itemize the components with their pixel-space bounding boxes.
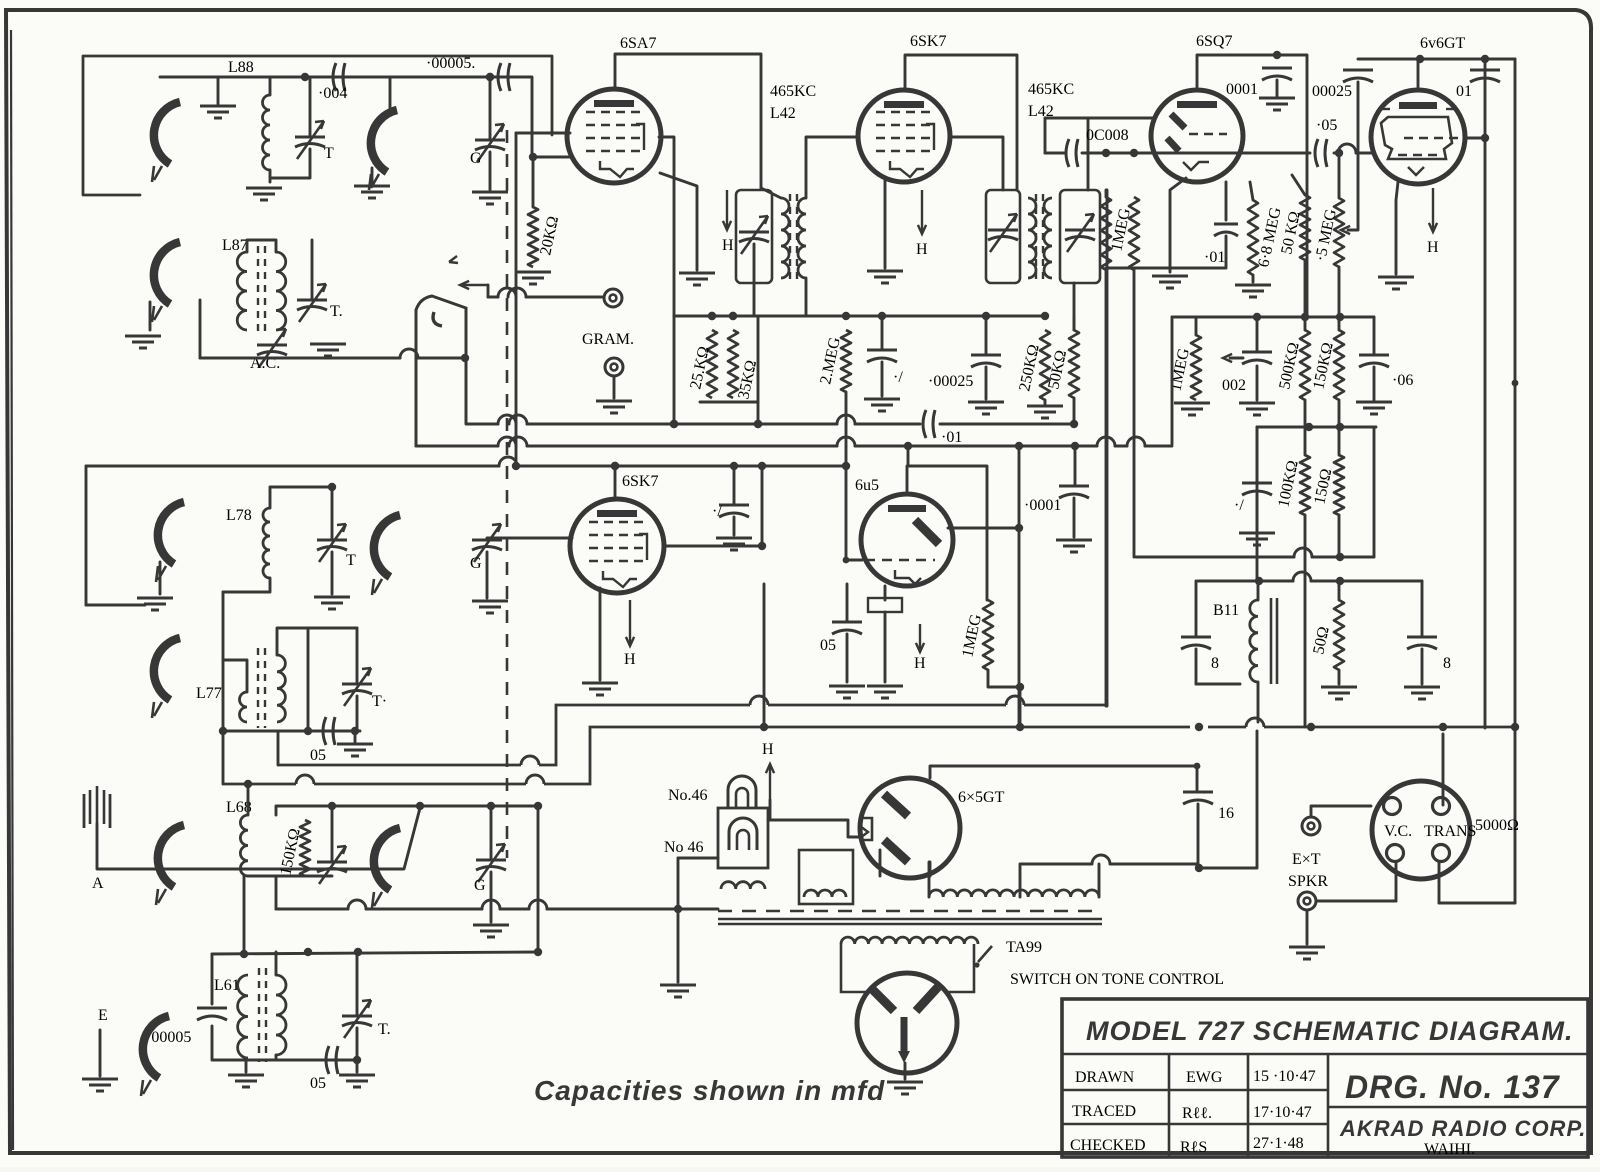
label tube 6SA7 [620,35,656,52]
wire L68 top rail [276,806,538,815]
wire avc drop b [1133,270,1136,557]
junction target bus [1015,524,1023,532]
label L68 [226,799,252,816]
wire screen bottom rail [700,401,758,404]
tube 6SK7 RF [570,499,664,593]
wire IFT1 pri top [761,188,781,198]
wire bus B plus top [86,457,850,470]
core L77 [258,648,265,728]
capacitor .00025 [1343,70,1373,82]
wire 6U5 cath [884,586,887,600]
label 465KC b [1028,81,1074,98]
capacitor .004 [333,63,345,91]
wire L87 top [247,240,276,252]
wire IFT2 sec lead [1087,118,1090,190]
wire B11 bottom [1257,682,1260,722]
coil IFT1 primary [781,198,789,278]
svg-text:H: H [624,651,636,668]
title corp [1339,1116,1586,1141]
svg-text:T.: T. [378,1021,391,1038]
wire 250K low [1044,400,1047,404]
ground 6SA7 cathode [679,273,715,285]
capacitor 002 [1242,352,1272,364]
wire coil L88 top [269,77,272,95]
label L42 a [770,105,796,122]
wire 6V6 top pin [1417,59,1420,90]
label 5000 [1475,817,1519,834]
svg-text:T: T [346,552,356,569]
heater arrow 6V6 [1429,188,1437,232]
svg-text:H: H [722,237,734,254]
junction bus B 1311 [1307,723,1315,731]
svg-text:·00005.: ·00005. [426,55,475,72]
wire .05 eye stem [846,634,849,682]
resistor 1MEG grid [1191,335,1201,400]
svg-text:5000Ω: 5000Ω [1475,817,1519,834]
capacitor 8 a [1181,637,1211,649]
ground 6SQ7 cathode [1152,276,1188,288]
label 05 ant [310,1075,326,1092]
svg-text:E: E [98,1007,108,1024]
wire antenna lead [97,808,420,869]
label 50K sq7 [1278,210,1304,256]
label switch on tone control [1010,971,1224,988]
svg-text:DRG. No. 137: DRG. No. 137 [1345,1069,1561,1105]
wire L61 sec bot [275,1055,278,1060]
junction lamp gnd [674,905,682,913]
resistor .5MEG [1334,198,1344,267]
resistor volume 500K [1129,197,1139,270]
resistor 6.8MEG [1248,200,1258,275]
wire .1 top [1256,427,1259,483]
svg-text:2.MEG: 2.MEG [817,335,844,385]
label 150K [1310,341,1337,391]
ground ext spkr [1289,947,1325,959]
wire 6x5 plate box [930,766,1197,790]
wire sec2 left edge [85,466,88,605]
svg-text:·00025: ·00025 [928,373,973,390]
switch wafer S3a [156,825,184,905]
wire B11 top [1257,581,1260,600]
heater arrow 6U5 [916,624,924,652]
wire 002 gnd lead [1256,317,1259,350]
label 500K [1276,341,1303,391]
wire switch S1b to ground [371,168,374,184]
svg-text:6v6GT: 6v6GT [1420,35,1466,52]
tube 6U5 base [868,598,902,612]
ground S2a [137,598,173,610]
wire .00025 stem [1348,82,1358,230]
label 1MEG avc [1108,206,1134,253]
svg-text:L77: L77 [196,685,222,702]
capacitor diode .01 [1214,224,1238,236]
label H 6SK7 [916,241,928,258]
junction L61 a [240,950,248,958]
trimmer IFT1 [739,216,769,254]
wire L78 bottom [223,578,270,592]
wire switch left drop [415,445,418,448]
label tube 6SK7 [910,33,946,50]
wire bus B step [224,718,1515,784]
junction L78 top [328,483,336,491]
wire gram term2 stem [613,377,616,398]
wire .5meg bottom [1338,267,1341,330]
junction eye bus [1016,683,1024,691]
ground 250K [1027,406,1063,418]
junction L61 b [304,948,312,956]
wire eye bus drop [1019,687,1022,727]
svg-text:AKRAD RADIO CORP.: AKRAD RADIO CORP. [1339,1116,1586,1141]
wire 6U5 gnd stem [884,612,887,682]
wire .1s top [733,466,736,505]
wire rail y316 [674,312,1049,320]
junction 35K top [729,312,737,320]
label tube 6U5 [855,477,879,494]
wire trimmer T2 [311,240,314,300]
junction L61 c [354,948,362,956]
wire L77 cap wire [223,730,360,733]
wire T L68 stem [331,806,334,862]
capacitor .00005 ant [197,1008,227,1020]
svg-text:·/: ·/ [893,369,903,386]
svg-text:TA99: TA99 [1006,939,1042,956]
plug mains [857,973,957,1073]
capacitor .00025 agc [971,355,1001,367]
junction 20K tap [529,153,537,161]
wire grid1 band switch [515,133,518,466]
resistor 100K [1300,455,1310,515]
label .00025 [1312,83,1352,100]
svg-text:L88: L88 [228,59,254,76]
wire 6V6 top rail [1358,58,1515,61]
wire IFT1 sec lead [806,137,858,198]
title checked date [1253,1135,1304,1152]
wire 50ohm top [1338,581,1341,600]
wire 6.8meg stub [1250,182,1253,200]
ground .06 [1356,402,1392,414]
ground G1 [472,192,508,204]
junction 6SK7b plate [758,542,766,550]
wire L61 bottom rail [246,1059,357,1062]
label .1 af [1234,497,1244,514]
coil IFT1 secondary [798,198,806,278]
wire grid bus y77 [160,73,530,81]
wire target drop [1018,446,1021,727]
ground switch S1b [354,186,390,198]
junction bus B 1020 [1016,723,1024,731]
svg-text:05: 05 [310,747,326,764]
wire vc to ext [1318,900,1396,903]
label .05 coupling [1316,117,1337,134]
wire 6SK7 top cap [905,55,1017,190]
capacitor .05 ant [326,1046,338,1074]
junction 6x5 box [1194,763,1201,770]
wire cap8b stem [1421,581,1424,635]
wire 1meg eye top [986,527,989,600]
ground 50ohm [1321,687,1357,699]
label E [98,1007,108,1024]
terminal gram pickup 1 [604,289,622,307]
trimmer T L77 [342,668,372,706]
svg-text:·06: ·06 [1392,372,1413,389]
ground .00025 [968,402,1004,414]
wire L68 coil top [247,784,250,815]
label TA99 [1006,939,1042,956]
label 1MEG grid [1167,346,1193,393]
switch tone [974,946,992,968]
wire HT left lead [928,862,931,897]
junction 2meg dot [843,557,850,564]
junction grid cap [486,73,494,81]
wire rail drop 1374 [1373,427,1376,557]
title drg no [1345,1069,1561,1105]
core B11 [1271,598,1277,684]
ground 20K [515,272,551,284]
trimmer capacitor T osc2 [297,284,327,322]
svg-text:465KC: 465KC [770,83,816,100]
label T L77 [372,693,387,710]
wire vc pin lead [1395,862,1398,901]
resistor 150K [1334,330,1344,400]
svg-text:L42: L42 [770,105,796,122]
svg-text:MODEL 727 SCHEMATIC DIAGRAM: MODEL 727 SCHEMATIC DIAGRAM. [1086,1016,1574,1046]
label tube 6SQ7 [1196,33,1232,50]
wire L68 to rail909 [275,876,278,909]
label .00005 ant [146,1029,191,1046]
wire T L77 low [356,696,359,731]
svg-text:465KC: 465KC [1028,81,1074,98]
junction L88 top [301,73,309,81]
label tube 6x5GT [958,789,1005,806]
label .01 diode [1204,249,1225,266]
wire avc drop a [1105,270,1108,706]
junction L77 a [219,727,227,735]
svg-text:TRACED: TRACED [1072,1103,1136,1120]
wire 100K bottom [1304,515,1307,727]
label 250K [1016,343,1043,393]
wire diode bottom lead [1073,283,1076,330]
capacitor .05 eye [832,622,862,634]
wire trimmer T top [309,77,312,137]
label .1 screen [712,503,722,520]
ground coil L88 [246,188,282,200]
wire L61 rail [212,952,538,954]
wire B+ line 1485 [1484,59,1487,728]
title drawn [1075,1069,1135,1086]
wire 6SK7 plate [949,137,1003,190]
core IF L87 [258,246,265,334]
label G1 [470,150,482,167]
resistor 35K [728,330,738,398]
label 1MEG eye [959,612,985,659]
ground heater [660,985,696,997]
svg-text:H: H [762,741,774,758]
switch wafer S2a [156,502,184,582]
terminal ext spkr 1 [1302,817,1320,835]
svg-text:150KΩ: 150KΩ [1310,341,1337,391]
wire S1c to ground [149,302,152,330]
svg-text:L61: L61 [214,977,240,994]
wire L68 drop [537,806,540,952]
coil L77 primary [240,692,248,722]
wire dashed AVC line [506,130,509,858]
capacitor .01 plate [1470,70,1500,82]
svg-text:DRAWN: DRAWN [1075,1069,1135,1086]
wire T L77 stem [356,628,359,684]
svg-text:E×T: E×T [1292,851,1321,868]
switch wafer S1b [369,110,397,190]
svg-text:EWG: EWG [1186,1069,1223,1086]
transformer core dashed [718,910,1102,913]
resistor 2MEG [841,330,851,392]
svg-text:27·1·48: 27·1·48 [1253,1135,1304,1152]
wire bus AVC upper [466,415,1078,428]
wire lamp left [678,857,718,860]
switch wafer S3b [372,828,400,908]
wire 6x5 heater b [929,862,932,876]
svg-text:50Ω: 50Ω [1310,625,1332,656]
svg-text:V.C.: V.C. [1384,823,1412,840]
tube 6U5 eye [861,494,953,586]
label H 6U5 [914,655,926,672]
svg-text:6SK7: 6SK7 [910,33,946,50]
trimmer capacitor T osc [295,121,325,159]
wire 6SK7 cathode [884,178,887,268]
label EXT [1292,851,1321,868]
ground L61 [228,1075,264,1087]
title waihi [1424,1141,1475,1158]
wire 500K to 100K [1304,400,1307,455]
label 16 [1218,805,1234,822]
label A.C. [250,355,280,372]
svg-text:0C008: 0C008 [1086,127,1129,144]
label tube 6V6GT [1420,35,1466,52]
junction 6SK7b top [611,462,619,470]
svg-text:No 46: No 46 [664,839,704,856]
wire RF section 1 enclosure [83,56,552,195]
svg-text:500KΩ: 500KΩ [1276,341,1303,391]
title block frame [1062,999,1588,1157]
ground switch S1a [200,106,236,118]
wire G3 low [490,872,493,922]
wire gram arrow stem [487,285,490,297]
wire 6SK7b plate [663,545,762,548]
tube 6V6GT output [1371,90,1465,184]
transformer core lines [718,919,1102,924]
junction screen bus [1481,134,1489,142]
resistor 500K [1300,330,1310,400]
svg-text:G: G [470,150,482,167]
label T [324,145,334,162]
wire 50K det low [1073,398,1076,424]
label 150K l68 [277,827,304,877]
wire lamp to gx [768,820,860,837]
wire G2 low [486,552,489,598]
junction .5meg grid b [1335,149,1343,157]
resistor 250K [1040,330,1050,400]
junction L68 coil top [244,780,252,788]
wire 6.8meg gnd lead [1252,275,1255,282]
label 8 b [1443,655,1451,672]
title drawn date [1253,1068,1316,1085]
wire L61 left box b [212,1026,246,1060]
ground .1 agc [864,399,900,411]
wire L78 top [270,487,332,508]
trimmer T L68 [317,846,347,884]
resistor 20K [528,207,538,267]
svg-text:·05: ·05 [1316,117,1337,134]
wire G1 top [489,77,492,140]
coil L87 secondary [276,252,286,330]
label TRANS [1424,823,1476,840]
trimmer IFT2 sec [1065,214,1095,252]
wire 150K joint [1338,400,1341,455]
ground 0001 [1259,98,1295,110]
svg-text:T·: T· [372,693,387,710]
resistor 50K det [1069,330,1079,398]
winding TA99 [841,937,978,944]
wire HT centre tap [1020,864,1092,897]
wire trans pin down [1438,862,1441,903]
junction 6V6 top [1416,55,1424,63]
wire grid lead b [514,77,572,157]
wire 6SQ7 top cap [1197,55,1307,317]
capacitor 00008 [1066,139,1078,167]
wire heater rail 909 [276,900,718,909]
capacitor .05 L77 [323,717,335,745]
svg-text:No.46: No.46 [668,787,708,804]
wire T L61 low [356,1028,359,1060]
ground mains plug [887,1082,923,1094]
svg-text:20KΩ: 20KΩ [537,215,562,257]
wire 20K top [532,157,535,207]
junction bus B spk [1439,723,1447,731]
ground 6.8MEG [1235,285,1271,297]
label H 6SA7 [722,237,734,254]
wire 1meg top [1195,317,1198,335]
junction bus B cap16 [1195,723,1203,731]
label SPKR [1288,873,1328,890]
svg-text:6SQ7: 6SQ7 [1196,33,1232,50]
wire 6U5 loop rect [908,446,987,527]
ground 6SK7 cathode [867,271,903,283]
coil L61 secondary [276,975,286,1055]
wire cap8b low [1421,649,1424,684]
wire plate rail y427 [1257,423,1376,431]
wire S1b stem [389,77,392,108]
svg-text:GRAM.: GRAM. [582,331,634,348]
wire bus444 to 1meg box [1171,317,1174,444]
label .5MEG [1312,207,1340,263]
trimmer capacitor G1 [475,124,505,162]
svg-text:6u5: 6u5 [855,477,879,494]
label 100K [1275,459,1302,509]
wire gram terminal feed [488,288,602,297]
ground gram [596,401,632,413]
svg-text:·/: ·/ [712,503,722,520]
label 150ohm [1311,467,1335,506]
coil IFT2 secondary [1044,198,1052,278]
label VC [1384,823,1412,840]
wire cap8a top [1195,581,1198,635]
svg-text:8: 8 [1443,655,1451,672]
wire .5meg top [1338,153,1341,198]
wire rail y581 [1198,572,1422,585]
svg-text:05: 05 [310,1075,326,1092]
wire L61 sec top [275,952,278,975]
coil L78 [263,508,270,578]
wire plug earth [904,1063,907,1079]
